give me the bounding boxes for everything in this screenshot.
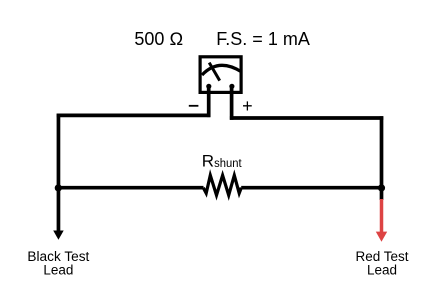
junction node right — [378, 184, 385, 191]
wire: meter left lead — [207, 85, 211, 117]
meter M1 body — [200, 57, 241, 93]
wire: top right horizontal — [230, 116, 383, 120]
svg-text:Lead: Lead — [43, 263, 73, 278]
svg-text:Lead: Lead — [367, 263, 397, 278]
meter terminal - (left) — [206, 84, 211, 89]
meter scale arc — [202, 65, 241, 75]
wire: bottom right horizontal — [241, 186, 383, 190]
meter needle — [209, 63, 220, 81]
minus polarity label — [189, 105, 199, 107]
svg-text:Rshunt: Rshunt — [202, 151, 242, 170]
red test lead arrow — [376, 188, 387, 242]
wire: right vertical — [380, 116, 384, 189]
wire: top left horizontal — [57, 113, 211, 117]
wire: bottom left horizontal — [57, 186, 204, 190]
resistor R_shunt zigzag — [203, 175, 241, 195]
meter terminal + (right) — [229, 84, 234, 89]
wire: meter right lead — [230, 85, 234, 120]
svg-text:500 Ω: 500 Ω — [134, 29, 183, 49]
svg-text:F.S. = 1 mA: F.S. = 1 mA — [216, 29, 310, 49]
black test lead arrow — [53, 188, 64, 240]
wire: left vertical — [57, 114, 61, 190]
junction node left — [55, 184, 62, 191]
svg-text:+: + — [242, 96, 253, 116]
